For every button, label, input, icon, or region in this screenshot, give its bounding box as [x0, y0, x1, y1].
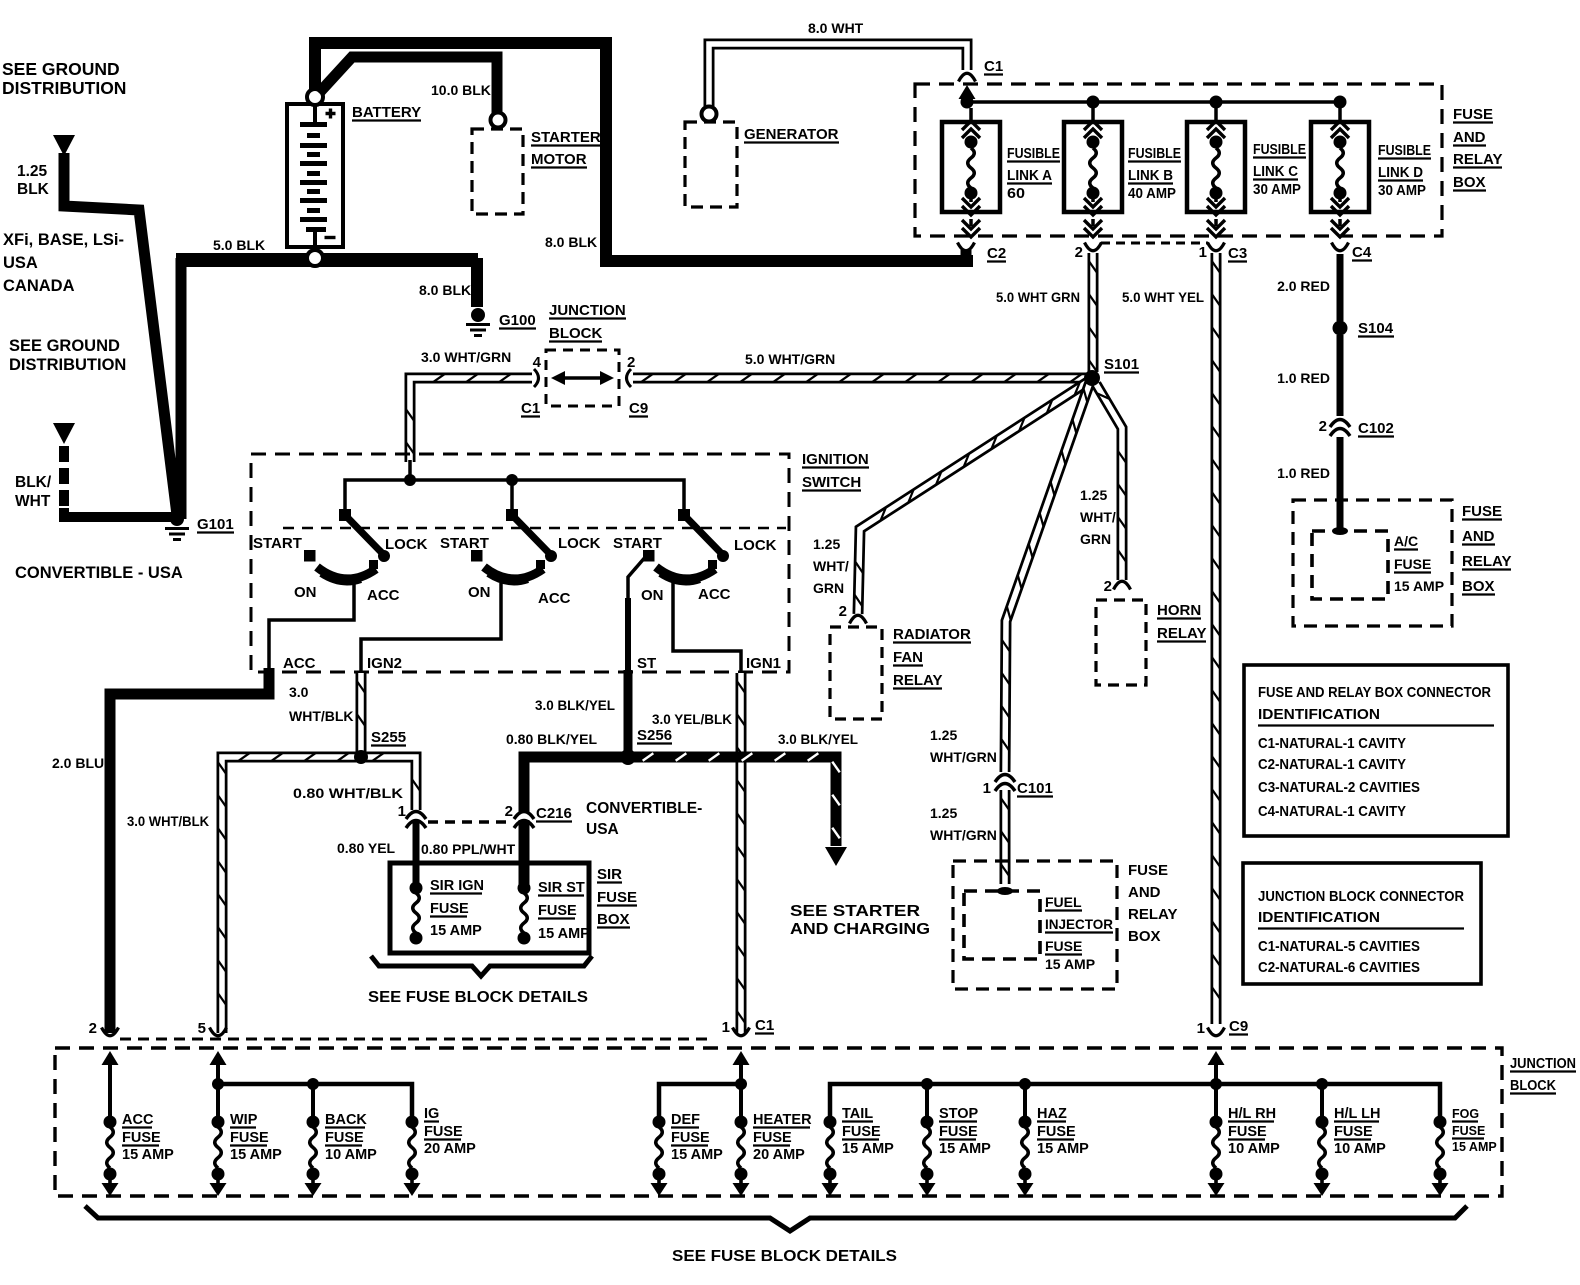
svg-text:FUSE: FUSE — [424, 1124, 463, 1140]
svg-text:A/C: A/C — [1394, 533, 1418, 549]
svg-text:FUSE: FUSE — [1128, 862, 1168, 879]
generator — [685, 122, 737, 207]
svg-text:CANADA: CANADA — [3, 277, 75, 295]
svg-text:2: 2 — [1319, 418, 1327, 435]
svg-text:FUSE: FUSE — [430, 901, 469, 917]
arrow C1 feed — [733, 1051, 750, 1065]
wire 3.0 YEL/BLK from IGN1 to junction block — [736, 673, 747, 1033]
svg-text:LINK B: LINK B — [1128, 168, 1173, 184]
svg-text:BACK: BACK — [325, 1112, 367, 1128]
svg-text:ACC: ACC — [122, 1112, 154, 1128]
svg-text:SEE FUSE BLOCK DETAILS: SEE FUSE BLOCK DETAILS — [368, 989, 588, 1006]
connector C3 cavity 1 — [1208, 243, 1225, 251]
splice S255 — [354, 750, 368, 764]
ignition switch box — [251, 454, 789, 672]
svg-text:40 AMP: 40 AMP — [1128, 186, 1176, 202]
svg-text:TAIL: TAIL — [842, 1106, 873, 1122]
svg-text:5: 5 — [198, 1020, 206, 1037]
svg-text:LOCK: LOCK — [558, 535, 601, 552]
svg-text:H/L LH: H/L LH — [1334, 1106, 1380, 1122]
svg-text:BATTERY: BATTERY — [352, 104, 421, 121]
svg-text:FUSE: FUSE — [671, 1130, 710, 1146]
svg-text:DEF: DEF — [671, 1112, 700, 1128]
svg-text:S256: S256 — [637, 727, 672, 744]
svg-text:C1: C1 — [755, 1017, 774, 1034]
battery — [287, 104, 343, 247]
svg-text:ST: ST — [637, 655, 656, 672]
svg-text:WIP: WIP — [230, 1112, 258, 1128]
svg-text:HEATER: HEATER — [753, 1112, 812, 1128]
fuse HAZ — [1017, 1116, 1034, 1197]
svg-text:INJECTOR: INJECTOR — [1045, 916, 1113, 932]
svg-text:C1: C1 — [984, 58, 1003, 75]
svg-text:FUSE: FUSE — [842, 1124, 881, 1140]
svg-text:FUSE: FUSE — [753, 1130, 792, 1146]
svg-text:15 AMP: 15 AMP — [671, 1147, 723, 1163]
svg-text:FUSE: FUSE — [538, 903, 577, 919]
wire drop to H/L LH fuse — [1320, 1084, 1324, 1122]
starter motor — [472, 129, 523, 214]
svg-text:DISTRIBUTION: DISTRIBUTION — [9, 356, 126, 374]
fuse H/L RH — [1208, 1116, 1225, 1197]
svg-text:30 AMP: 30 AMP — [1378, 183, 1426, 199]
svg-text:IGN1: IGN1 — [746, 655, 781, 672]
svg-text:30 AMP: 30 AMP — [1253, 182, 1301, 198]
svg-text:3.0 BLK/YEL: 3.0 BLK/YEL — [778, 731, 858, 747]
wire drop to HAZ fuse — [1023, 1084, 1027, 1122]
radiator fan relay — [830, 627, 882, 719]
svg-text:2: 2 — [505, 803, 513, 820]
node link C bus — [1210, 96, 1223, 109]
svg-text:8.0 BLK: 8.0 BLK — [419, 282, 471, 298]
SIR ST fuse — [518, 882, 531, 895]
fuse and relay box connector identification table — [1244, 665, 1508, 836]
svg-text:15 AMP: 15 AMP — [230, 1147, 282, 1163]
svg-text:8.0 BLK: 8.0 BLK — [545, 234, 597, 250]
node HAZ bus — [1019, 1078, 1031, 1090]
svg-text:1.25: 1.25 — [930, 805, 957, 821]
svg-text:USA: USA — [586, 821, 619, 838]
svg-text:MOTOR: MOTOR — [531, 151, 587, 168]
fusible link link B — [1064, 108, 1122, 237]
svg-text:10 AMP: 10 AMP — [1334, 1141, 1386, 1157]
ignition switch contact set at x=345 — [304, 509, 390, 582]
svg-text:STOP: STOP — [939, 1106, 979, 1122]
svg-text:S255: S255 — [371, 729, 406, 746]
svg-text:IG: IG — [424, 1106, 439, 1122]
svg-text:RELAY: RELAY — [1453, 151, 1502, 168]
svg-text:LINK A: LINK A — [1007, 168, 1052, 184]
svg-text:15 AMP: 15 AMP — [1394, 578, 1444, 594]
wire 5.0 BLK vertical to G101 — [176, 258, 187, 519]
svg-text:LINK C: LINK C — [1253, 164, 1298, 180]
svg-text:JUNCTION: JUNCTION — [549, 302, 626, 319]
wire drop to STOP fuse — [925, 1084, 929, 1122]
junction block connector identification table — [1243, 863, 1481, 984]
bus wire WIP-BACK-IG — [218, 1084, 412, 1122]
svg-text:3.0 WHT/GRN: 3.0 WHT/GRN — [421, 349, 511, 365]
wire 1.25 WHT/GRN into fuel injector fuse — [1000, 790, 1011, 884]
wire ACC exit inside switch box — [269, 584, 354, 671]
SIR fuse box — [390, 863, 589, 953]
svg-text:15 AMP: 15 AMP — [939, 1141, 991, 1157]
wire 8.0 WHT generator to C1 — [709, 44, 967, 108]
svg-text:15 AMP: 15 AMP — [538, 926, 590, 942]
svg-text:RELAY: RELAY — [1128, 906, 1177, 923]
svg-text:1: 1 — [983, 780, 991, 797]
svg-text:USA: USA — [3, 254, 38, 272]
wire 8.0 BLK stub to G100 — [471, 258, 483, 307]
svg-text:FAN: FAN — [893, 649, 923, 666]
svg-text:15 AMP: 15 AMP — [122, 1147, 174, 1163]
wire 3.0 BLK/YEL from ST to S256 — [624, 670, 633, 753]
svg-text:FUSE: FUSE — [1334, 1124, 1373, 1140]
node WIP bus — [212, 1078, 224, 1090]
svg-text:C9: C9 — [1229, 1018, 1248, 1035]
brace under junction block — [85, 1206, 1467, 1231]
svg-text:XFi, BASE, LSi-: XFi, BASE, LSi- — [3, 231, 124, 249]
svg-text:IGN2: IGN2 — [367, 655, 402, 672]
wire 0.80 PPL/WHT — [519, 820, 530, 886]
svg-text:WHT/GRN: WHT/GRN — [930, 749, 997, 765]
svg-text:LOCK: LOCK — [385, 536, 428, 553]
connector C1 cavity 1 entry — [733, 1028, 750, 1036]
node STOP bus — [921, 1078, 933, 1090]
fuse TAIL — [822, 1116, 839, 1197]
svg-text:2: 2 — [89, 1020, 97, 1037]
svg-text:GRN: GRN — [1080, 531, 1111, 547]
node H/L LH bus — [1316, 1078, 1328, 1090]
splice S104 — [1333, 321, 1348, 336]
svg-text:1.25: 1.25 — [1080, 487, 1107, 503]
wire 3.0 BLK/YEL from S256 to starter circuit — [634, 757, 836, 846]
wire 1.0 RED lower — [1337, 437, 1344, 531]
svg-text:FUSE: FUSE — [1462, 503, 1502, 520]
wire BLK/WHT horizontal to G101 — [64, 508, 179, 517]
wire 2.0 BLU from ACC to junction block — [110, 668, 269, 1033]
svg-text:SEE FUSE BLOCK DETAILS: SEE FUSE BLOCK DETAILS — [672, 1248, 897, 1265]
svg-text:JUNCTION BLOCK CONNECTOR: JUNCTION BLOCK CONNECTOR — [1258, 888, 1464, 905]
svg-text:1.25: 1.25 — [930, 727, 957, 743]
fuse STOP — [919, 1116, 936, 1197]
svg-text:CONVERTIBLE - USA: CONVERTIBLE - USA — [15, 564, 183, 582]
fusible link link D — [1311, 108, 1369, 237]
ground G101 — [170, 512, 184, 526]
svg-text:BOX: BOX — [597, 911, 630, 928]
svg-text:0.80 PPL/WHT: 0.80 PPL/WHT — [421, 841, 516, 857]
node BACK bus — [307, 1078, 319, 1090]
fuse IG — [404, 1116, 421, 1197]
wire feed into ignition switch — [408, 460, 412, 481]
svg-text:5.0 WHT GRN: 5.0 WHT GRN — [996, 289, 1080, 305]
svg-text:RELAY: RELAY — [1157, 625, 1206, 642]
ignition switch contact set at x=684 — [643, 509, 729, 582]
svg-text:BLK/: BLK/ — [15, 474, 52, 491]
ignition switch bus wire — [345, 480, 684, 513]
connector C216 body dashed line — [428, 820, 512, 823]
svg-text:IDENTIFICATION: IDENTIFICATION — [1258, 706, 1380, 723]
connector C4 — [1332, 243, 1349, 251]
svg-text:C3-NATURAL-2 CAVITIES: C3-NATURAL-2 CAVITIES — [1258, 779, 1420, 796]
wire 1.25 WHT/GRN to radiator fan relay — [858, 381, 1089, 614]
svg-text:ON: ON — [294, 584, 317, 601]
node link D bus — [1334, 96, 1347, 109]
svg-text:FUSIBLE: FUSIBLE — [1007, 146, 1060, 162]
svg-text:SIR ST: SIR ST — [538, 880, 585, 896]
svg-text:FOG: FOG — [1452, 1107, 1479, 1121]
svg-text:FUSE: FUSE — [122, 1130, 161, 1146]
svg-text:WHT: WHT — [15, 493, 51, 510]
mechanical linkage dashed line — [283, 527, 786, 530]
wire drop to H/L RH fuse — [1214, 1084, 1218, 1122]
connector C101 — [995, 775, 1015, 792]
arrow into C1 — [959, 85, 976, 99]
fuse H/L LH — [1314, 1116, 1331, 1197]
ground distribution arrow (1.25 BLK) — [53, 135, 75, 156]
starter motor terminal — [491, 113, 506, 128]
svg-text:LINK D: LINK D — [1378, 165, 1423, 181]
svg-text:H/L RH: H/L RH — [1228, 1106, 1276, 1122]
ground distribution arrow (BLK/WHT) — [53, 423, 75, 444]
svg-text:C4: C4 — [1352, 244, 1372, 261]
fuel injector fuse wire terminal — [997, 887, 1013, 895]
svg-text:15 AMP: 15 AMP — [842, 1141, 894, 1157]
wire 1.25 BLK to G101 — [64, 153, 177, 515]
svg-text:3.0 YEL/BLK: 3.0 YEL/BLK — [652, 711, 732, 727]
svg-text:AND CHARGING: AND CHARGING — [790, 921, 930, 938]
svg-text:15 AMP: 15 AMP — [1037, 1141, 1089, 1157]
svg-text:FUSE: FUSE — [1452, 1124, 1485, 1138]
svg-text:C2-NATURAL-6 CAVITIES: C2-NATURAL-6 CAVITIES — [1258, 959, 1420, 976]
svg-text:C1-NATURAL-1 CAVITY: C1-NATURAL-1 CAVITY — [1258, 735, 1406, 752]
svg-text:FUSIBLE: FUSIBLE — [1128, 146, 1181, 162]
svg-text:BOX: BOX — [1453, 174, 1486, 191]
connector horn relay — [1114, 581, 1131, 589]
wire bus drop to middle pivot — [510, 480, 514, 513]
svg-text:WHT/BLK: WHT/BLK — [289, 708, 354, 724]
wire 0.80 BLK/YEL from S256 to C216 — [524, 757, 632, 812]
svg-text:SIR IGN: SIR IGN — [430, 878, 484, 894]
svg-text:3.0 BLK/YEL: 3.0 BLK/YEL — [535, 697, 615, 713]
node H/L RH bus — [1210, 1078, 1222, 1090]
svg-text:START: START — [613, 535, 662, 552]
fuse BACK — [305, 1116, 322, 1197]
svg-text:ON: ON — [468, 584, 491, 601]
svg-text:RADIATOR: RADIATOR — [893, 626, 971, 643]
svg-text:0.80 BLK/YEL: 0.80 BLK/YEL — [506, 731, 597, 747]
node bus 2 — [506, 474, 518, 486]
generator terminal — [702, 107, 717, 122]
svg-text:1: 1 — [1199, 244, 1207, 261]
wire 8.0 BLK battery positive to C2 — [315, 43, 973, 261]
svg-text:RELAY: RELAY — [893, 672, 942, 689]
svg-text:2: 2 — [1104, 578, 1112, 595]
svg-text:AND: AND — [1453, 129, 1486, 146]
wire IGN1 exit inside switch box — [673, 582, 741, 671]
svg-text:2.0 RED: 2.0 RED — [1277, 278, 1330, 294]
svg-text:FUSE: FUSE — [1228, 1124, 1267, 1140]
fusible link link A — [942, 108, 1000, 237]
svg-text:LOCK: LOCK — [734, 537, 777, 554]
svg-text:GENERATOR: GENERATOR — [744, 126, 839, 143]
svg-text:BLOCK: BLOCK — [549, 325, 602, 342]
bus wire DEF-HEATER — [659, 1084, 741, 1122]
fuse and relay box (fuel injector) — [953, 861, 1117, 989]
svg-text:FUSE: FUSE — [1037, 1124, 1076, 1140]
battery negative terminal — [307, 250, 323, 266]
junction block internal arrow — [556, 376, 609, 380]
svg-text:C1-NATURAL-5 CAVITIES: C1-NATURAL-5 CAVITIES — [1258, 938, 1420, 955]
svg-text:C9: C9 — [629, 400, 648, 417]
svg-text:BLOCK: BLOCK — [1510, 1078, 1556, 1094]
wire drop to BACK fuse — [311, 1084, 315, 1122]
wire C2 stub — [961, 250, 972, 263]
svg-text:C4-NATURAL-1 CAVITY: C4-NATURAL-1 CAVITY — [1258, 803, 1406, 820]
fuse FOG — [1432, 1116, 1449, 1197]
svg-text:20 AMP: 20 AMP — [753, 1147, 805, 1163]
horn relay — [1096, 600, 1146, 685]
svg-text:WHT/: WHT/ — [1080, 509, 1116, 525]
svg-text:1.25: 1.25 — [813, 536, 840, 552]
svg-text:C2-NATURAL-1 CAVITY: C2-NATURAL-1 CAVITY — [1258, 756, 1406, 773]
node HEATER bus — [735, 1078, 747, 1090]
svg-text:AND: AND — [1128, 884, 1161, 901]
fuse ACC — [102, 1116, 119, 1197]
SIR IGN fuse — [410, 882, 423, 895]
ignition switch contact set at x=512 — [471, 509, 557, 582]
svg-text:DISTRIBUTION: DISTRIBUTION — [2, 78, 126, 98]
svg-text:5.0 WHT YEL: 5.0 WHT YEL — [1122, 289, 1204, 305]
fuse DEF — [651, 1116, 668, 1197]
wire 5.0 WHT GRN from link B — [1088, 253, 1099, 372]
arrow ACC feed — [102, 1051, 119, 1065]
wire IGN2 exit inside switch box — [361, 583, 501, 671]
svg-text:BOX: BOX — [1128, 928, 1161, 945]
svg-text:0.80 WHT/BLK: 0.80 WHT/BLK — [293, 785, 403, 801]
svg-text:SEE GROUND: SEE GROUND — [9, 337, 120, 355]
svg-text:FUSE: FUSE — [597, 889, 637, 906]
svg-text:G100: G100 — [499, 312, 536, 329]
svg-text:ACC: ACC — [283, 655, 316, 672]
svg-text:SWITCH: SWITCH — [802, 474, 861, 491]
wire 5.0 BLK horizontal battery negative — [176, 253, 478, 267]
svg-text:ACC: ACC — [367, 587, 400, 604]
connector C216 cavity 2 — [514, 812, 534, 829]
svg-text:FUSE: FUSE — [230, 1130, 269, 1146]
svg-text:60: 60 — [1007, 186, 1025, 202]
arrow see starter and charging — [825, 847, 847, 866]
wire ST exit inside switch box — [628, 555, 647, 600]
connector C3 body dashed line — [1101, 242, 1208, 245]
svg-text:START: START — [440, 535, 489, 552]
node link B bus — [1087, 96, 1100, 109]
svg-text:BOX: BOX — [1462, 578, 1495, 595]
svg-text:FUSE AND RELAY BOX CONNECTOR: FUSE AND RELAY BOX CONNECTOR — [1258, 684, 1491, 701]
svg-text:AND: AND — [1462, 528, 1495, 545]
connector C2 — [958, 243, 975, 251]
connector cavity 5 entry — [210, 1028, 227, 1036]
wire 2.0 RED — [1337, 254, 1344, 321]
svg-text:WHT/GRN: WHT/GRN — [930, 827, 997, 843]
wire 1.25 WHT/GRN to horn relay — [1096, 384, 1122, 580]
svg-text:15 AMP: 15 AMP — [1452, 1140, 1497, 1154]
svg-text:ACC: ACC — [698, 586, 731, 603]
wire BLK/WHT dashed vertical — [59, 446, 69, 512]
svg-text:SEE GROUND: SEE GROUND — [2, 59, 120, 79]
svg-text:1.0 RED: 1.0 RED — [1277, 465, 1330, 481]
arrow C9 feed — [1208, 1051, 1225, 1065]
svg-text:FUSE: FUSE — [939, 1124, 978, 1140]
svg-text:C216: C216 — [536, 805, 572, 822]
splice S101 — [1084, 370, 1100, 386]
fuse WIP — [210, 1116, 227, 1197]
connector C1 (junction block left) — [534, 369, 539, 387]
wire 3.0 WHT/GRN to ignition switch — [410, 378, 532, 462]
fuse and relay box (top) — [915, 84, 1442, 236]
node bus 1 — [404, 474, 416, 486]
svg-text:FUEL: FUEL — [1045, 894, 1082, 910]
connector C3 cavity 2 — [1085, 243, 1102, 251]
splice S256 — [620, 749, 636, 765]
wire 1.0 RED upper — [1337, 335, 1344, 416]
A/C fuse wire terminal — [1332, 527, 1348, 535]
svg-text:SIR: SIR — [597, 866, 622, 883]
svg-text:BLK: BLK — [17, 181, 50, 198]
svg-text:2: 2 — [627, 354, 635, 371]
svg-text:C3: C3 — [1228, 245, 1247, 262]
svg-text:C102: C102 — [1358, 420, 1394, 437]
svg-text:HORN: HORN — [1157, 602, 1201, 619]
connector C9 cavity 1 entry — [1208, 1028, 1225, 1036]
svg-text:1.0 RED: 1.0 RED — [1277, 370, 1330, 386]
svg-text:4: 4 — [533, 354, 542, 371]
ground G100 — [471, 308, 485, 322]
svg-text:10 AMP: 10 AMP — [325, 1147, 377, 1163]
A/C fuse — [1312, 531, 1388, 599]
svg-text:2.0 BLU: 2.0 BLU — [52, 755, 104, 771]
connector C216 cavity 1 — [406, 812, 426, 829]
bus wire inside fuse and relay box — [967, 100, 1340, 104]
svg-text:STARTER: STARTER — [531, 129, 601, 146]
svg-text:1: 1 — [722, 1019, 730, 1036]
wire 1.25 WHT/GRN to C101 — [1005, 382, 1090, 772]
svg-text:HAZ: HAZ — [1037, 1106, 1067, 1122]
wire 10.0 BLK battery to starter — [319, 57, 497, 114]
connector C9 (junction block right) — [627, 369, 632, 387]
svg-text:START: START — [253, 535, 302, 552]
svg-text:RELAY: RELAY — [1462, 553, 1511, 570]
brace under SIR fuse box — [371, 956, 592, 976]
battery positive terminal — [307, 89, 323, 105]
wire 0.80 WHT/BLK from S255 to C216 — [364, 757, 416, 810]
svg-text:JUNCTION: JUNCTION — [1510, 1056, 1576, 1072]
wire 3.0 WHT/BLK from S255 to junction block — [222, 757, 357, 1033]
junction block (top) — [546, 350, 619, 406]
svg-text:IDENTIFICATION: IDENTIFICATION — [1258, 909, 1380, 926]
svg-text:15 AMP: 15 AMP — [430, 923, 482, 939]
wire 5.0 WHT YEL from link C to C9 — [1211, 253, 1222, 1024]
svg-text:FUSE: FUSE — [1045, 938, 1082, 954]
svg-text:2: 2 — [839, 603, 847, 620]
svg-text:CONVERTIBLE-: CONVERTIBLE- — [586, 800, 702, 817]
fuse HEATER — [733, 1116, 750, 1197]
svg-text:C101: C101 — [1017, 780, 1053, 797]
connector radiator fan relay — [850, 615, 867, 623]
junction block connector interface dashed line — [120, 1038, 712, 1041]
fuel injector fuse — [964, 891, 1040, 959]
svg-text:1.25: 1.25 — [17, 163, 48, 180]
connector C1 (fuse and relay box) — [959, 73, 976, 81]
